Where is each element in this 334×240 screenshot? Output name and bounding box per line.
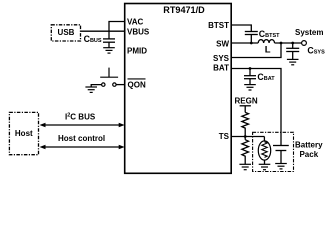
wire button to ground [91, 85, 101, 87]
wire down to SYS pin [231, 43, 281, 58]
Host control double arrow [40, 134, 125, 149]
svg-text:CBAT: CBAT [257, 72, 275, 82]
wire TS pin [231, 136, 264, 138]
inductor L [258, 40, 274, 56]
svg-text:VAC: VAC [127, 18, 144, 27]
svg-text:BTST: BTST [208, 21, 229, 30]
push button switch [100, 68, 118, 87]
svg-text:Host: Host [15, 129, 33, 138]
System terminal [295, 28, 323, 45]
svg-text:BAT: BAT [213, 64, 229, 73]
svg-text:CSYS: CSYS [307, 46, 325, 56]
svg-text:Battery: Battery [295, 140, 323, 149]
ground for CBUS [103, 48, 115, 53]
thermistor NTC [258, 141, 270, 164]
battery cell [273, 146, 289, 164]
wire BAT pin to battery [231, 69, 281, 146]
node system junction to SYS [280, 42, 283, 45]
svg-text:TS: TS [219, 132, 230, 141]
svg-text:USB: USB [58, 28, 75, 37]
wire junction up to VAC pin [109, 22, 125, 32]
svg-text:L: L [265, 44, 271, 55]
svg-text:Host control: Host control [58, 134, 105, 143]
node TS junction [244, 135, 247, 138]
svg-text:RT9471/D: RT9471/D [163, 5, 205, 15]
node SW/CBTST junction [250, 42, 253, 45]
node REGN rail [235, 96, 258, 112]
svg-text:System: System [295, 28, 323, 37]
ground for thermistor [259, 164, 271, 169]
svg-text:I2C BUS: I2C BUS [65, 112, 96, 121]
pin QON label [128, 79, 146, 90]
svg-text:QON: QON [128, 81, 146, 90]
wire SW pin to inductor [231, 42, 258, 44]
wire button to QON pin [116, 84, 125, 86]
ground for CSYS [287, 59, 299, 64]
Host box [9, 112, 38, 154]
svg-text:PMID: PMID [127, 46, 147, 55]
svg-text:CBTST: CBTST [259, 29, 280, 39]
wire TS to thermistor [263, 137, 265, 142]
wire USB to VBUS pin [81, 30, 125, 32]
capacitor CBAT [244, 69, 275, 85]
ground for CBAT [244, 85, 256, 90]
svg-text:CBUS: CBUS [84, 34, 102, 44]
wire inductor to System terminal [275, 42, 302, 44]
svg-text:SYS: SYS [213, 54, 230, 63]
resistor R1 REGN to TS [242, 112, 249, 136]
svg-text:REGN: REGN [235, 96, 258, 105]
op-amp U1 RT9471/D IC body [125, 4, 232, 174]
svg-text:Pack: Pack [299, 150, 318, 159]
capacitor CSYS [286, 43, 325, 59]
svg-text:SW: SW [216, 40, 229, 49]
I2C BUS double arrow [40, 112, 125, 127]
capacitor CBUS [84, 31, 115, 48]
ground for button [85, 87, 97, 92]
ground for R2 [239, 164, 251, 169]
node CSYS junction [291, 42, 294, 45]
svg-text:VBUS: VBUS [127, 27, 150, 36]
USB box [51, 25, 80, 41]
Battery Pack box [253, 132, 324, 171]
resistor R2 TS to ground [242, 140, 249, 165]
wire BTST pin to bootstrap cap [231, 25, 251, 32]
node CBAT junction [249, 67, 252, 70]
capacitor CBTST [245, 29, 280, 43]
ground for battery [275, 164, 287, 169]
